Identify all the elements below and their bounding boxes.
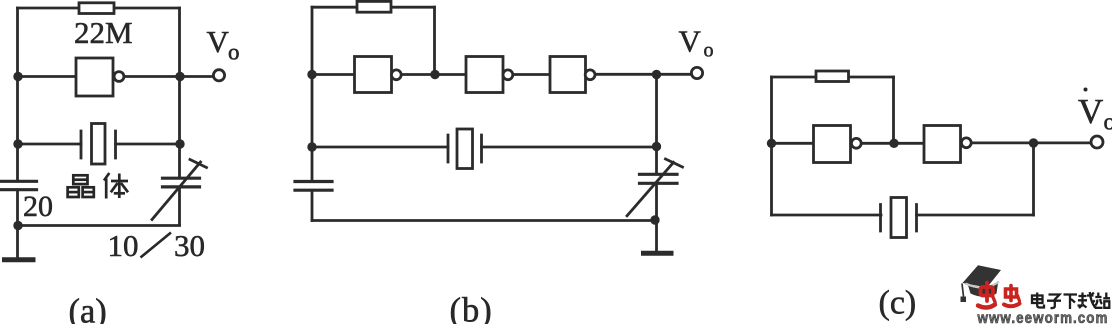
svg-text:(c): (c) (879, 285, 917, 322)
svg-text:22M: 22M (74, 15, 133, 50)
svg-text:10: 10 (108, 228, 139, 263)
svg-text:www.eeworm.com: www.eeworm.com (977, 310, 1109, 324)
svg-text:30: 30 (174, 228, 205, 263)
svg-text:o: o (1104, 110, 1112, 136)
svg-text:o: o (704, 40, 714, 62)
svg-text:20: 20 (23, 190, 53, 223)
svg-text:V: V (1078, 92, 1103, 131)
svg-text:V: V (207, 24, 230, 59)
svg-text:(a): (a) (69, 293, 107, 324)
svg-text:o: o (228, 40, 240, 65)
svg-text:(b): (b) (450, 292, 493, 324)
svg-text:V: V (679, 24, 702, 59)
